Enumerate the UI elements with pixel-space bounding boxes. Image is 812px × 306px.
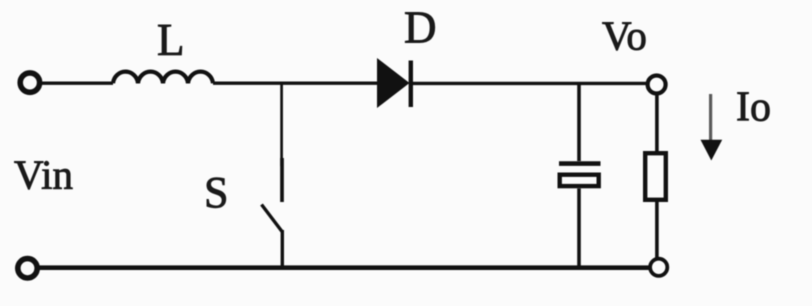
wire switch branch upper bbox=[280, 83, 283, 166]
wire switch branch lower bbox=[281, 230, 284, 269]
wire top right bbox=[409, 82, 647, 85]
switch S blade bbox=[262, 205, 283, 232]
switch S fixed contact bbox=[280, 158, 284, 202]
terminal input positive bbox=[20, 73, 39, 92]
capacitor top plate bbox=[559, 161, 601, 166]
wire load branch lower bbox=[655, 201, 659, 260]
terminal input negative bbox=[18, 259, 37, 278]
node Vo output terminal bbox=[648, 76, 666, 94]
svg-text:Vo: Vo bbox=[602, 13, 647, 59]
wire top left bbox=[41, 81, 113, 84]
inductor L bbox=[113, 72, 213, 84]
wire capacitor branch upper bbox=[577, 83, 581, 161]
arrow Io head bbox=[701, 140, 723, 161]
svg-text:S: S bbox=[204, 168, 228, 217]
svg-text:L: L bbox=[157, 15, 185, 65]
arrow Io shaft bbox=[709, 94, 712, 141]
capacitor bottom plate bbox=[560, 175, 599, 186]
diode D cathode bar bbox=[409, 61, 413, 108]
svg-text:Vin: Vin bbox=[14, 151, 73, 197]
wire capacitor branch lower bbox=[577, 189, 581, 270]
wire load branch upper bbox=[655, 92, 659, 152]
svg-text:D: D bbox=[404, 3, 437, 53]
svg-text:Io: Io bbox=[736, 85, 771, 131]
diode D anode triangle bbox=[377, 58, 410, 108]
resistor load bbox=[645, 153, 666, 200]
wire bottom bbox=[36, 265, 650, 270]
terminal output negative bbox=[650, 259, 667, 276]
wire top middle bbox=[213, 81, 378, 84]
